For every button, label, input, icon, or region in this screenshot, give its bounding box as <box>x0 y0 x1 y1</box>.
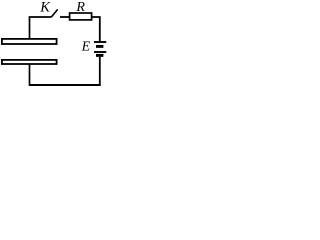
wire: top rail between switch and resistor <box>60 16 69 18</box>
svg-text:E: E <box>81 40 91 55</box>
battery E cell 2 long plate <box>94 51 106 53</box>
wire: bottom rail <box>30 84 101 86</box>
wire: bottom-left vertical up to plate B <box>29 64 31 86</box>
battery E cell 1 long plate <box>94 41 106 43</box>
capacitor plate B (bottom plate) <box>2 60 57 64</box>
resistor R box <box>70 13 92 20</box>
battery E cell 1 short thick plate <box>96 45 103 48</box>
capacitor plate A (top plate) <box>2 39 57 44</box>
svg-text:R: R <box>75 0 85 15</box>
wire: battery down to bottom rail <box>99 57 101 85</box>
svg-text:K: K <box>39 0 51 16</box>
wire: top rail left segment to switch <box>29 16 52 18</box>
battery E cell 2 short thick plate <box>96 54 103 57</box>
wire: top-left vertical from plate A up to top rail <box>29 17 31 39</box>
switch K blade <box>52 9 58 16</box>
wire: resistor to top-right corner and down to battery <box>91 17 100 41</box>
